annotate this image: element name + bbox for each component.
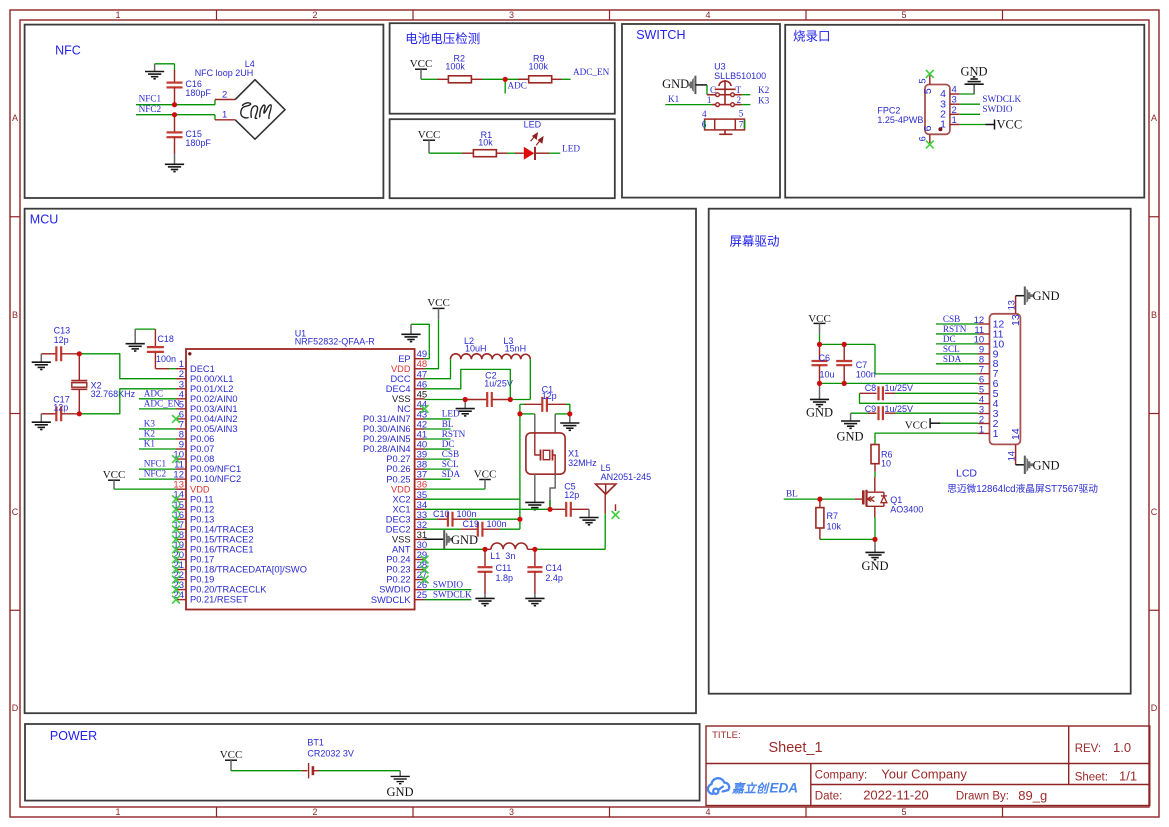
svg-text:1: 1 — [707, 95, 712, 105]
svg-text:C19: C19 — [463, 519, 480, 529]
svg-text:NC: NC — [397, 404, 411, 414]
svg-text:12p: 12p — [53, 403, 68, 413]
svg-text:L1 3n: L1 3n — [490, 551, 515, 561]
svg-text:100n: 100n — [487, 519, 507, 529]
svg-text:6: 6 — [979, 375, 984, 386]
svg-text:P0.16/TRACE1: P0.16/TRACE1 — [190, 545, 254, 555]
svg-text:P0.18/TRACEDATA[0]/SWO: P0.18/TRACEDATA[0]/SWO — [190, 565, 307, 575]
svg-text:14: 14 — [1010, 428, 1022, 440]
svg-text:1u/25V: 1u/25V — [484, 379, 513, 389]
svg-text:P0.27: P0.27 — [386, 454, 410, 464]
svg-text:5: 5 — [901, 807, 906, 817]
svg-text:C8: C8 — [865, 383, 877, 393]
svg-text:1: 1 — [952, 115, 957, 126]
svg-text:4: 4 — [979, 394, 984, 405]
svg-text:P0.26: P0.26 — [386, 464, 410, 474]
svg-text:SWDIO: SWDIO — [433, 580, 463, 590]
svg-text:P0.00/XL1: P0.00/XL1 — [190, 374, 233, 384]
svg-text:10k: 10k — [827, 522, 842, 532]
svg-text:5: 5 — [979, 384, 984, 395]
svg-text:P0.01/XL2: P0.01/XL2 — [190, 384, 233, 394]
svg-text:6: 6 — [702, 120, 707, 130]
svg-text:GND: GND — [662, 77, 689, 91]
svg-text:6: 6 — [917, 136, 927, 141]
svg-text:100n: 100n — [457, 509, 477, 519]
svg-text:89_g: 89_g — [1018, 788, 1047, 803]
svg-text:VCC: VCC — [427, 297, 450, 309]
svg-text:P0.03/AIN1: P0.03/AIN1 — [190, 404, 238, 414]
svg-text:XC2: XC2 — [393, 494, 411, 504]
svg-text:ADC_EN: ADC_EN — [144, 398, 181, 408]
svg-text:SWITCH: SWITCH — [636, 28, 685, 42]
svg-text:P0.14/TRACE3: P0.14/TRACE3 — [190, 524, 254, 534]
svg-text:4: 4 — [702, 109, 707, 119]
svg-text:1: 1 — [115, 10, 120, 20]
svg-text:VCC: VCC — [410, 58, 433, 70]
svg-text:C9: C9 — [865, 404, 877, 414]
svg-text:LED: LED — [562, 144, 580, 154]
svg-text:A: A — [1151, 113, 1157, 123]
svg-text:9: 9 — [979, 345, 984, 356]
svg-text:12: 12 — [993, 318, 1005, 330]
svg-text:GND: GND — [960, 65, 987, 79]
svg-text:GND: GND — [451, 533, 478, 547]
svg-text:32.768KHz: 32.768KHz — [91, 389, 136, 399]
svg-text:SWDIO: SWDIO — [982, 104, 1012, 114]
svg-text:10uH: 10uH — [465, 343, 487, 353]
svg-text:Drawn By:: Drawn By: — [956, 790, 1009, 802]
svg-text:VDD: VDD — [190, 484, 210, 494]
svg-text:BL: BL — [786, 489, 798, 499]
svg-text:P0.23: P0.23 — [386, 565, 410, 575]
svg-text:1.8p: 1.8p — [496, 573, 514, 583]
svg-text:2: 2 — [312, 807, 317, 817]
svg-text:C10: C10 — [433, 509, 450, 519]
svg-text:NFC2: NFC2 — [139, 104, 162, 114]
svg-text:ANT: ANT — [392, 545, 411, 555]
svg-text:AO3400: AO3400 — [890, 504, 923, 514]
svg-text:4: 4 — [705, 807, 710, 817]
svg-text:SCL: SCL — [943, 344, 960, 354]
svg-text:ADC_EN: ADC_EN — [573, 67, 610, 77]
svg-text:2: 2 — [979, 414, 984, 425]
svg-text:SWDCLK: SWDCLK — [982, 94, 1021, 104]
svg-text:K2: K2 — [144, 429, 156, 439]
svg-text:T: T — [736, 85, 742, 95]
svg-text:SDA: SDA — [442, 469, 461, 479]
svg-text:13: 13 — [1006, 300, 1016, 310]
svg-text:1/1: 1/1 — [1119, 768, 1137, 783]
svg-text:1: 1 — [979, 424, 984, 435]
svg-text:VSS: VSS — [392, 394, 411, 404]
svg-text:RSTN: RSTN — [943, 324, 967, 334]
svg-text:10k: 10k — [478, 138, 493, 148]
svg-text:POWER: POWER — [50, 729, 97, 743]
svg-text:2: 2 — [222, 89, 227, 100]
svg-text:P0.06: P0.06 — [190, 434, 214, 444]
svg-text:P0.17: P0.17 — [190, 555, 214, 565]
svg-text:GND: GND — [1033, 289, 1060, 303]
svg-text:VCC: VCC — [418, 129, 441, 141]
svg-text:DC: DC — [943, 334, 956, 344]
svg-text:C11: C11 — [496, 563, 512, 573]
svg-text:思迈微12864lcd液晶屏ST7567驱动: 思迈微12864lcd液晶屏ST7567驱动 — [947, 482, 1098, 495]
svg-text:180pF: 180pF — [185, 88, 211, 98]
svg-text:12p: 12p — [54, 335, 69, 345]
svg-text:C6: C6 — [819, 353, 831, 363]
svg-text:K1: K1 — [668, 94, 680, 104]
svg-text:P0.11: P0.11 — [190, 494, 214, 504]
svg-text:1.0: 1.0 — [1113, 740, 1131, 755]
svg-text:P0.29/AIN5: P0.29/AIN5 — [363, 434, 411, 444]
svg-text:SWDCLK: SWDCLK — [433, 590, 472, 600]
svg-text:NFC1: NFC1 — [139, 94, 162, 104]
svg-text:DEC3: DEC3 — [386, 514, 411, 524]
svg-text:1: 1 — [115, 807, 120, 817]
svg-text:100k: 100k — [445, 62, 465, 72]
svg-text:SDA: SDA — [943, 354, 962, 364]
svg-text:10u: 10u — [820, 370, 835, 380]
svg-text:DEC2: DEC2 — [386, 524, 411, 534]
svg-text:SLLB510100: SLLB510100 — [714, 71, 766, 81]
svg-text:P0.09/NFC1: P0.09/NFC1 — [190, 464, 241, 474]
svg-text:SWDCLK: SWDCLK — [371, 595, 412, 605]
svg-text:CSB: CSB — [943, 314, 960, 324]
svg-text:Sheet:: Sheet: — [1075, 771, 1108, 783]
svg-text:AN2051-245: AN2051-245 — [601, 472, 652, 482]
svg-text:C: C — [1151, 507, 1158, 517]
svg-text:1: 1 — [222, 110, 227, 121]
svg-text:GND: GND — [386, 785, 413, 799]
svg-text:XC1: XC1 — [393, 504, 411, 514]
svg-text:3: 3 — [979, 404, 984, 415]
svg-text:R7: R7 — [827, 511, 839, 521]
svg-text:Sheet_1: Sheet_1 — [769, 740, 823, 756]
svg-text:P0.20/TRACECLK: P0.20/TRACECLK — [190, 585, 267, 595]
svg-text:2022-11-20: 2022-11-20 — [863, 787, 929, 802]
svg-text:NFC1: NFC1 — [144, 459, 167, 469]
svg-text:P0.24: P0.24 — [386, 555, 410, 565]
svg-text:12p: 12p — [564, 490, 579, 500]
svg-text:100n: 100n — [856, 370, 876, 380]
svg-text:10: 10 — [881, 459, 891, 469]
svg-text:EDA: EDA — [770, 780, 799, 795]
svg-text:5: 5 — [917, 78, 927, 83]
svg-text:2.4p: 2.4p — [545, 573, 563, 583]
svg-text:VDD: VDD — [391, 364, 411, 374]
svg-text:32MHz: 32MHz — [568, 458, 597, 468]
svg-text:RSTN: RSTN — [442, 429, 466, 439]
svg-text:烧录口: 烧录口 — [793, 30, 831, 44]
svg-text:15nH: 15nH — [505, 343, 527, 353]
svg-text:LED: LED — [442, 409, 460, 419]
svg-text:C14: C14 — [545, 563, 562, 573]
svg-text:2: 2 — [737, 95, 742, 105]
svg-text:P0.28/AIN4: P0.28/AIN4 — [363, 444, 411, 454]
svg-text:1.25-4PWB: 1.25-4PWB — [877, 115, 923, 125]
svg-text:VCC: VCC — [997, 117, 1023, 131]
svg-text:12p: 12p — [542, 391, 557, 401]
svg-text:BL: BL — [442, 419, 454, 429]
svg-text:NFC2: NFC2 — [144, 469, 167, 479]
svg-text:REV:: REV: — [1075, 743, 1101, 755]
svg-text:BT1: BT1 — [307, 738, 324, 748]
svg-text:K3: K3 — [758, 96, 770, 106]
svg-text:Your Company: Your Company — [881, 766, 967, 781]
svg-text:VCC: VCC — [220, 749, 243, 761]
svg-text:P0.04/AIN2: P0.04/AIN2 — [190, 414, 238, 424]
svg-text:180pF: 180pF — [185, 138, 211, 148]
svg-text:P0.10/NFC2: P0.10/NFC2 — [190, 474, 241, 484]
svg-text:P0.15/TRACE2: P0.15/TRACE2 — [190, 534, 254, 544]
svg-text:VDD: VDD — [391, 484, 411, 494]
svg-text:13: 13 — [1010, 314, 1022, 326]
svg-text:DC: DC — [442, 439, 455, 449]
svg-text:P0.13: P0.13 — [190, 514, 214, 524]
svg-text:7: 7 — [979, 365, 984, 376]
svg-text:电池电压检测: 电池电压检测 — [405, 31, 480, 46]
svg-text:U3: U3 — [714, 62, 726, 72]
svg-text:SCL: SCL — [442, 459, 459, 469]
svg-text:LED: LED — [524, 120, 542, 130]
svg-text:VCC: VCC — [905, 420, 928, 432]
svg-text:3: 3 — [509, 10, 514, 20]
svg-text:VCC: VCC — [103, 469, 126, 481]
svg-text:VCC: VCC — [474, 468, 497, 480]
svg-text:嘉立创: 嘉立创 — [731, 781, 770, 795]
svg-text:A: A — [12, 113, 18, 123]
svg-text:P0.22: P0.22 — [386, 575, 410, 585]
svg-text:P0.07: P0.07 — [190, 444, 214, 454]
svg-text:NFC: NFC — [55, 43, 81, 57]
svg-text:K2: K2 — [758, 85, 770, 95]
svg-text:DCC: DCC — [390, 374, 410, 384]
svg-text:DEC1: DEC1 — [190, 364, 215, 374]
svg-text:6: 6 — [922, 125, 934, 131]
svg-text:GND: GND — [806, 406, 833, 420]
svg-text:Date:: Date: — [815, 790, 843, 802]
svg-text:14: 14 — [1006, 451, 1016, 461]
svg-text:C7: C7 — [856, 360, 868, 370]
svg-text:ADC: ADC — [508, 81, 527, 91]
svg-text:VSS: VSS — [392, 535, 411, 545]
svg-text:P0.05/AIN3: P0.05/AIN3 — [190, 424, 238, 434]
svg-text:SWDIO: SWDIO — [379, 585, 411, 595]
svg-text:2: 2 — [312, 10, 317, 20]
svg-text:B: B — [1151, 310, 1157, 320]
svg-text:EP: EP — [398, 354, 410, 364]
svg-text:7: 7 — [739, 120, 744, 130]
svg-text:C: C — [12, 507, 19, 517]
svg-text:P0.21/RESET: P0.21/RESET — [190, 595, 248, 605]
svg-text:P0.25: P0.25 — [386, 474, 410, 484]
svg-text:NRF52832-QFAA-R: NRF52832-QFAA-R — [295, 337, 376, 347]
svg-text:CR2032 3V: CR2032 3V — [307, 748, 354, 758]
svg-text:100n: 100n — [156, 354, 176, 364]
svg-text:GND: GND — [861, 559, 888, 573]
svg-text:MCU: MCU — [30, 213, 58, 227]
svg-text:P0.08: P0.08 — [190, 454, 214, 464]
svg-text:3: 3 — [509, 807, 514, 817]
svg-text:5: 5 — [922, 88, 934, 94]
svg-text:GND: GND — [836, 430, 863, 444]
svg-text:FPC2: FPC2 — [877, 106, 900, 116]
svg-text:TITLE:: TITLE: — [712, 730, 741, 741]
svg-text:GND: GND — [1033, 458, 1060, 472]
svg-text:DEC4: DEC4 — [386, 384, 411, 394]
svg-text:LCD: LCD — [956, 467, 977, 479]
svg-text:4: 4 — [705, 10, 710, 20]
svg-text:Company:: Company: — [815, 769, 867, 781]
svg-text:C18: C18 — [157, 334, 174, 344]
svg-text:P0.12: P0.12 — [190, 504, 214, 514]
svg-text:X1: X1 — [568, 449, 579, 459]
svg-text:CSB: CSB — [442, 449, 459, 459]
svg-text:P0.30/AIN6: P0.30/AIN6 — [363, 424, 411, 434]
svg-text:1u/25V: 1u/25V — [885, 383, 914, 393]
svg-text:K3: K3 — [144, 419, 156, 429]
svg-text:屏幕驱动: 屏幕驱动 — [730, 235, 780, 249]
svg-text:P0.31/AIN7: P0.31/AIN7 — [363, 414, 411, 424]
svg-text:5: 5 — [739, 109, 744, 119]
svg-text:B: B — [12, 310, 18, 320]
svg-text:ADC: ADC — [144, 388, 163, 398]
svg-text:P0.19: P0.19 — [190, 575, 214, 585]
svg-text:P0.02/AIN0: P0.02/AIN0 — [190, 394, 238, 404]
svg-text:1u/25V: 1u/25V — [885, 404, 914, 414]
svg-text:D: D — [1151, 703, 1158, 713]
svg-text:8: 8 — [979, 355, 984, 366]
svg-text:NFC loop 2UH: NFC loop 2UH — [195, 68, 254, 78]
svg-text:5: 5 — [901, 10, 906, 20]
svg-text:K1: K1 — [144, 439, 156, 449]
svg-text:D: D — [12, 703, 19, 713]
svg-text:100k: 100k — [529, 62, 549, 72]
